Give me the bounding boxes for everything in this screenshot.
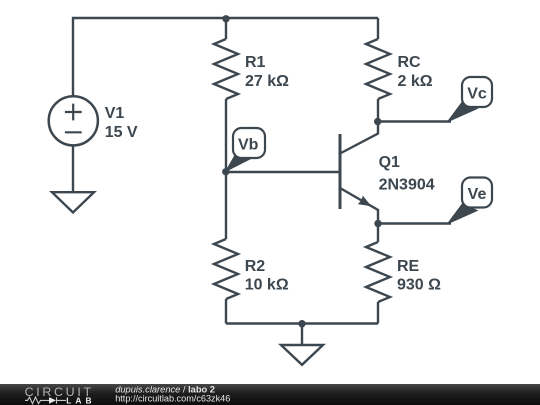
svg-text:V1: V1 [105,105,125,122]
svg-text:RE: RE [397,258,420,275]
svg-text:LAB: LAB [66,395,96,405]
svg-text:Q1: Q1 [379,154,400,171]
svg-text:10 kΩ: 10 kΩ [245,277,289,294]
svg-text:2 kΩ: 2 kΩ [398,73,433,90]
svg-text:Vb: Vb [238,136,259,153]
svg-text:R1: R1 [245,54,266,71]
svg-text:930 Ω: 930 Ω [397,277,441,294]
svg-text:Ve: Ve [468,186,487,203]
svg-text:RC: RC [398,54,422,71]
svg-text:R2: R2 [245,258,266,275]
svg-text:2N3904: 2N3904 [379,177,435,194]
svg-text:27 kΩ: 27 kΩ [245,73,289,90]
svg-text:Vc: Vc [467,85,487,102]
svg-text:15 V: 15 V [105,124,138,141]
svg-text:http://circuitlab.com/c63zk46: http://circuitlab.com/c63zk46 [115,394,230,404]
